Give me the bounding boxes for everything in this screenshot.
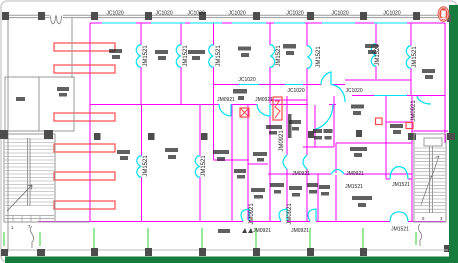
room: tiny top bbox=[253, 152, 267, 156]
svg-text:JM0921: JM0921 bbox=[249, 203, 255, 225]
colonnade columns bbox=[1, 248, 367, 256]
right staircase top landing box bbox=[424, 138, 442, 146]
building right wall bbox=[444, 23, 446, 143]
main corridor wall y104 bbox=[90, 104, 336, 106]
room: top band 1 bbox=[109, 49, 122, 53]
colonnade base gray line bbox=[8, 249, 448, 251]
light well label bbox=[233, 89, 247, 94]
small room wall x287 bbox=[286, 96, 288, 221]
door JM0921 bottom wall b bbox=[279, 209, 287, 221]
building bottom wall bbox=[38, 221, 445, 223]
toilet label bbox=[16, 97, 25, 101]
svg-text:JM0921: JM0921 bbox=[346, 171, 364, 177]
lower band wall x143 bbox=[141, 104, 143, 221]
right stair exit green tick bbox=[415, 232, 417, 245]
svg-text:JM1521: JM1521 bbox=[392, 182, 410, 188]
svg-text:JM0921: JM0921 bbox=[287, 203, 293, 225]
room: women change bbox=[289, 120, 301, 124]
svg-text:JM1521: JM1521 bbox=[216, 45, 222, 67]
room: top band 3 bbox=[188, 50, 205, 54]
left staircase treads bbox=[5, 139, 54, 206]
left stair columns bbox=[0, 130, 53, 139]
small rooms horizontal y174 bbox=[268, 173, 412, 175]
svg-text:JM0921: JM0921 bbox=[253, 228, 271, 234]
room: lower band 3 bbox=[213, 150, 229, 154]
building top wall bbox=[90, 22, 445, 24]
left staircase frame bbox=[4, 134, 55, 222]
svg-text:JM1521: JM1521 bbox=[143, 155, 149, 177]
big room bottom wall y80 bbox=[345, 79, 411, 81]
left staircase rails bbox=[27, 138, 29, 206]
left stair exit door S-swing bbox=[30, 226, 33, 248]
door JM1521 lower room2 wall x200 bbox=[195, 156, 200, 177]
room: lower band 1 bbox=[117, 150, 130, 154]
door on wall x287 bbox=[283, 155, 287, 169]
room: top band 7 bbox=[422, 69, 435, 73]
light well left wall x213.5 bbox=[213, 23, 215, 160]
red S/V strip marker bbox=[273, 97, 282, 120]
door JM1521 room3 wall x214 bbox=[209, 45, 214, 67]
light well top window wall y84.5 bbox=[214, 84, 321, 86]
room: lower band 2 bbox=[165, 148, 178, 152]
svg-text:JM1521: JM1521 bbox=[183, 45, 189, 67]
right staircase arrow bbox=[421, 156, 439, 205]
entrance double door W at top-left bbox=[50, 14, 64, 19]
big double door upper leaf bbox=[321, 72, 331, 85]
mid-right wall x313 bbox=[314, 105, 316, 147]
svg-text:JM1521: JM1521 bbox=[345, 184, 363, 190]
svg-text:JM0921: JM0921 bbox=[279, 130, 285, 152]
JC1020 windows on top wall bbox=[102, 22, 407, 24]
top band wall x270 bbox=[269, 23, 271, 221]
room: exhaust fan bbox=[251, 188, 265, 192]
toilet divider wall bbox=[38, 77, 40, 131]
door JM1521 room6 wall x307 bbox=[307, 46, 312, 68]
svg-text:JM1521: JM1521 bbox=[391, 227, 409, 233]
entrance label bbox=[218, 229, 230, 233]
right staircase frame bbox=[414, 134, 446, 222]
door JM0921 bottom wall a bbox=[241, 209, 249, 221]
annex bottom wall bbox=[5, 221, 90, 223]
svg-text:JC1020: JC1020 bbox=[228, 11, 245, 17]
courtyard windows bbox=[285, 84, 303, 86]
left staircase landing rail bbox=[5, 215, 54, 222]
top band wall x141 bbox=[140, 23, 142, 104]
svg-text:JC1020: JC1020 bbox=[331, 11, 348, 17]
narrow room wall x318 bbox=[317, 174, 319, 221]
left staircase arrow bbox=[7, 185, 32, 211]
lower band wall x201 bbox=[199, 104, 201, 221]
toilet room bbox=[5, 77, 74, 131]
door gaps in walls bbox=[140, 44, 412, 223]
door JM1521 room1 wall x141 bbox=[136, 45, 141, 67]
big fan door bbox=[313, 104, 333, 130]
door JM0921 stairwell top bbox=[417, 96, 431, 104]
green column ticks bbox=[4, 228, 363, 248]
small rooms horizontal y164 bbox=[248, 163, 268, 165]
room: motor bbox=[351, 105, 364, 109]
svg-text:JM0921: JM0921 bbox=[291, 228, 309, 234]
door JM0921 corridor b bbox=[257, 104, 270, 116]
svg-text:JC1020: JC1020 bbox=[286, 11, 303, 17]
room: top band 4 bbox=[238, 47, 251, 51]
room: top band 6 bbox=[365, 44, 378, 48]
small room wall x232 bbox=[231, 104, 233, 221]
svg-text:JM0921: JM0921 bbox=[292, 171, 310, 177]
door JM1521 lower room1 wall x141.5 bbox=[137, 156, 142, 177]
mid-right horizontal y143 bbox=[336, 142, 412, 144]
svg-text:JC1020: JC1020 bbox=[383, 11, 400, 17]
left exterior gray wall bbox=[7, 15, 9, 252]
mid-right wall x386 bbox=[385, 96, 387, 180]
room: top band 5 bbox=[283, 44, 296, 49]
svg-text:JM1521: JM1521 bbox=[316, 46, 322, 68]
svg-text:JM1521: JM1521 bbox=[143, 45, 149, 67]
svg-text:JC1020: JC1020 bbox=[187, 11, 204, 17]
svg-text:JM0921: JM0921 bbox=[255, 97, 273, 103]
door JM1521 M on wall y179 bbox=[390, 167, 408, 179]
door JM0921 bottom wall c bbox=[308, 209, 316, 221]
room: top band 2 bbox=[155, 50, 168, 54]
top JC1020 window labels bbox=[106, 11, 400, 17]
top band wall x181 bbox=[180, 23, 182, 104]
mid-right wall x334 bbox=[333, 96, 335, 147]
svg-text:JM1521: JM1521 bbox=[201, 155, 207, 177]
vertical JM1521 texts bbox=[143, 44, 418, 225]
big double door lower leaf bbox=[331, 85, 345, 103]
svg-text:JC1020: JC1020 bbox=[287, 88, 304, 94]
right annex base line bbox=[412, 249, 448, 251]
room: vent small a bbox=[313, 129, 322, 133]
red revision marker with cross bbox=[240, 108, 249, 117]
room: store small bbox=[289, 186, 302, 190]
small rooms horizontal y160 bbox=[213, 159, 249, 161]
top band wall x308 bbox=[306, 23, 308, 85]
door JM0921 corridor a bbox=[219, 104, 231, 116]
right stair exit door S-swing bbox=[418, 224, 421, 246]
stairwell wall x412 bbox=[411, 96, 413, 222]
room: vent small b bbox=[324, 129, 333, 133]
door JM1521 room2 wall x181 bbox=[176, 45, 181, 67]
stairwell top wall y131 bbox=[412, 130, 448, 132]
door JM1521 M on bottom wall bbox=[390, 212, 408, 222]
vertical room label strip bbox=[288, 114, 292, 138]
small room wall x248 bbox=[247, 104, 249, 221]
narrow rooms labels bbox=[307, 183, 318, 187]
top exterior gray wall (double line) bbox=[8, 15, 446, 17]
svg-text:JC1020: JC1020 bbox=[345, 88, 362, 94]
room: duty right bbox=[390, 124, 403, 128]
svg-text:JC1020: JC1020 bbox=[155, 11, 172, 17]
door JM1521 training room bbox=[331, 170, 344, 175]
svg-text:JC1020: JC1020 bbox=[106, 11, 123, 17]
door JM1521 room7 wall x376 bbox=[371, 44, 376, 66]
bottom green landscaping bar bbox=[5, 257, 458, 263]
annex small label bbox=[57, 87, 69, 91]
svg-text:JM1521: JM1521 bbox=[276, 45, 282, 67]
svg-text:JM0921: JM0921 bbox=[411, 100, 417, 122]
stair hall wall y179 bbox=[386, 178, 390, 180]
mid-right horizontal y122 bbox=[386, 121, 412, 123]
right annex column bbox=[444, 245, 449, 252]
door on wall x307 bbox=[303, 155, 307, 169]
top band wall x411 bbox=[410, 23, 412, 96]
right staircase treads bbox=[415, 148, 445, 213]
annex corridor wall bbox=[71, 17, 73, 78]
top band wall x376 bbox=[375, 23, 377, 79]
svg-text:JM0921: JM0921 bbox=[217, 97, 235, 103]
right staircase rails bbox=[429, 146, 431, 213]
light well window bbox=[239, 84, 259, 86]
small room wall x306 bbox=[306, 85, 308, 222]
room: washing bbox=[234, 169, 246, 173]
red badge logo top-right bbox=[438, 6, 451, 22]
stairwell corner columns bbox=[408, 133, 416, 140]
window wall y95.5 right bbox=[352, 95, 445, 97]
red marker right bbox=[406, 123, 413, 129]
room: training bbox=[352, 196, 372, 200]
room: operation prep bbox=[266, 125, 282, 129]
svg-text:JM1521: JM1521 bbox=[412, 46, 418, 68]
top wall columns bbox=[2, 12, 420, 20]
door JM1521 room8 wall x411 bbox=[406, 46, 411, 68]
red marker mid-right bbox=[376, 118, 383, 125]
right green landscaping bar bbox=[449, 5, 458, 262]
light well bottom wall y100 bbox=[270, 99, 307, 101]
mid-right wall x336 bbox=[335, 143, 337, 221]
door JM1521 room5 wall x270 bbox=[270, 45, 275, 67]
entrance step marks bbox=[242, 228, 253, 233]
room: machine bbox=[350, 147, 367, 151]
room: men change bbox=[270, 183, 284, 187]
building left wall bbox=[89, 23, 91, 221]
svg-text:JC1020: JC1020 bbox=[238, 77, 255, 83]
mid-right horizontal y147 bbox=[303, 146, 334, 148]
